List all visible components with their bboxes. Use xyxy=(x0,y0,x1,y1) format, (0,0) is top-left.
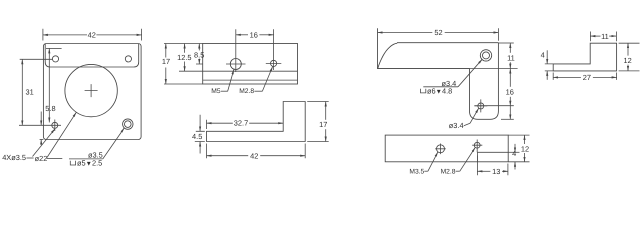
svg-text:5.8: 5.8 xyxy=(45,104,55,113)
hole M2.8 xyxy=(474,142,480,148)
svg-text:52: 52 xyxy=(434,28,442,37)
hook curve xyxy=(378,43,397,68)
plate outline xyxy=(43,44,141,140)
aux short extension xyxy=(46,47,62,49)
svg-text:12: 12 xyxy=(623,56,631,65)
dim 12 xyxy=(524,135,526,144)
ext lines 17 xyxy=(307,102,329,142)
left extension lines xyxy=(164,44,203,85)
dim 32.7 xyxy=(207,122,233,124)
dim 12 xyxy=(627,43,629,55)
svg-text:8.5: 8.5 xyxy=(194,50,204,59)
svg-text:ø3.4: ø3.4 xyxy=(449,121,464,130)
dim 4 xyxy=(546,50,548,64)
dim 11 xyxy=(590,35,600,37)
dim 5.8 xyxy=(40,112,42,126)
step xyxy=(477,152,508,162)
big bore circle xyxy=(65,64,117,116)
leader to hole BL xyxy=(33,129,56,157)
dim 12.5 xyxy=(184,44,186,53)
svg-text:27: 27 xyxy=(583,73,591,82)
dim 52 xyxy=(378,32,433,34)
svg-text:ø22: ø22 xyxy=(35,154,48,163)
shelf xyxy=(47,157,63,159)
internal line 2 xyxy=(203,79,298,81)
ext tab bottom xyxy=(501,118,514,120)
dim 4.5 xyxy=(199,115,201,132)
aux vertical dim line xyxy=(48,48,50,122)
dim 8.5 xyxy=(198,44,200,51)
svg-text:32.7: 32.7 xyxy=(234,119,248,128)
svg-text:17: 17 xyxy=(319,120,327,129)
dim 17 xyxy=(325,102,327,120)
dim 4 xyxy=(514,144,516,152)
ext lines 4.5 xyxy=(195,131,205,141)
ext lines 12 xyxy=(508,135,529,162)
svg-text:M2.8: M2.8 xyxy=(239,88,254,95)
L profile outline xyxy=(207,102,306,142)
dim 42 xyxy=(207,155,249,157)
ext lines 42 xyxy=(207,144,306,159)
svg-text:16: 16 xyxy=(250,30,258,39)
internal line 1 xyxy=(203,70,298,72)
counterbore symbol + text xyxy=(421,89,426,93)
dim 31 xyxy=(21,59,23,125)
svg-text:4.5: 4.5 xyxy=(192,132,202,141)
svg-text:ø6▼4.8: ø6▼4.8 xyxy=(427,86,452,95)
svg-text:M3.5: M3.5 xyxy=(409,168,424,175)
dim 16 xyxy=(236,34,248,36)
cross hole xyxy=(478,103,484,109)
ext hole center xyxy=(474,105,513,107)
svg-text:4: 4 xyxy=(541,50,545,59)
svg-text:16: 16 xyxy=(506,88,514,97)
leader to big circle xyxy=(47,112,76,157)
dim 13 xyxy=(477,170,490,172)
ext lines 12 xyxy=(619,43,640,71)
svg-text:11: 11 xyxy=(507,53,515,62)
dim 16 xyxy=(509,69,511,87)
dim 11 xyxy=(509,43,511,53)
step profile outline xyxy=(553,43,616,71)
side view body xyxy=(203,44,298,85)
dim 42 extension lines xyxy=(43,29,142,41)
svg-text:12.5: 12.5 xyxy=(177,53,191,62)
hole top-left xyxy=(52,56,58,62)
dash xyxy=(27,157,34,159)
M2.8 hole xyxy=(271,60,277,66)
shelf under dia 3.5 xyxy=(69,158,103,160)
svg-text:4: 4 xyxy=(512,149,516,158)
bracket outline xyxy=(378,28,499,119)
svg-text:M5: M5 xyxy=(211,88,221,95)
dim 17 xyxy=(165,44,167,58)
ext line hole BL xyxy=(19,124,61,126)
top edge ext xyxy=(498,42,513,44)
svg-text:42: 42 xyxy=(250,151,258,160)
hole bottom-left xyxy=(52,122,58,128)
hole top-right xyxy=(125,56,131,62)
hole M3.5 xyxy=(437,145,445,153)
svg-text:13: 13 xyxy=(492,167,500,176)
M5 hole xyxy=(230,59,241,70)
ext above left edge xyxy=(206,120,208,129)
svg-text:31: 31 xyxy=(26,88,34,97)
leader to counterbore xyxy=(103,128,125,159)
counterbore symbol xyxy=(70,161,75,165)
ext lines 4 xyxy=(545,64,553,71)
bar bottom line + ext xyxy=(378,68,518,70)
dim 42 xyxy=(43,34,87,36)
ext lines 13 xyxy=(477,156,508,176)
center cross xyxy=(85,84,98,97)
svg-text:11: 11 xyxy=(601,32,609,41)
ext lines 52 xyxy=(497,28,499,40)
ext line hole TL xyxy=(20,58,53,60)
svg-text:42: 42 xyxy=(88,30,96,39)
counterbore bottom-right xyxy=(123,119,133,129)
svg-text:M2.8: M2.8 xyxy=(441,168,456,175)
ext step xyxy=(508,151,519,153)
ext lines 27 xyxy=(553,73,616,80)
tail below 16 xyxy=(509,106,511,120)
svg-text:ø5▼2.5: ø5▼2.5 xyxy=(77,158,102,167)
body xyxy=(385,135,508,162)
svg-text:12: 12 xyxy=(521,145,529,154)
ext lines 11 xyxy=(590,32,616,42)
svg-text:4Xø3.5: 4Xø3.5 xyxy=(2,153,26,162)
top strip xyxy=(45,44,139,67)
counterbore hole xyxy=(480,50,491,61)
dim 27 xyxy=(553,76,581,78)
bracket top edge (double line) xyxy=(397,42,498,44)
svg-text:17: 17 xyxy=(162,57,170,66)
